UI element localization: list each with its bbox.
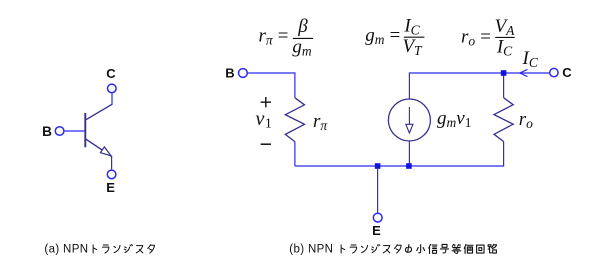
emitter diagonal [86,139,112,156]
svg-text:E: E [106,180,115,195]
resistor r_pi [285,98,304,142]
node square E/rpi junction [375,163,381,169]
wire r_pi bottom lead [294,142,296,166]
terminal B (right) [239,69,248,78]
wire current source bottom lead [408,141,410,166]
wire E stub [377,166,379,213]
terminal B (left) [55,127,64,136]
terminal C (left) [108,84,117,93]
label minus [261,143,271,145]
label + [261,97,271,107]
svg-text:E: E [372,223,381,238]
svg-text:ro =: ro = [461,26,492,48]
terminal E (left) [107,170,116,179]
wire r_o top lead [503,73,505,98]
wire B to r_pi top [247,73,295,98]
terminal E (right) [373,213,382,222]
wire r_o bottom lead [503,142,505,167]
wire base lead [64,130,84,132]
transistor base bar [84,113,86,147]
wire bottom rail [295,165,504,167]
resistor r_o [494,98,513,142]
node square C rail [501,70,507,76]
wire emitter lead [111,156,113,170]
emitter arrowhead [100,147,111,156]
svg-text:C: C [562,65,572,80]
svg-text:(a) NPN: (a) NPN [44,244,88,256]
current source arrowhead [406,124,413,133]
current source g_m v1 circle [388,99,430,141]
svg-text:C: C [106,66,116,81]
svg-text:β: β [297,16,308,37]
terminal C (right) [550,68,558,76]
I_C current arrow [520,69,528,76]
svg-text:B: B [42,124,52,139]
svg-text:B: B [225,66,234,81]
svg-text:rπ =: rπ = [259,25,290,47]
svg-text:(b) NPN: (b) NPN [289,244,333,256]
current source arrow shaft [408,107,410,125]
wire collector lead [111,93,113,105]
node square source junction [406,163,412,169]
collector diagonal [86,104,112,119]
wire current source top lead [409,73,549,99]
